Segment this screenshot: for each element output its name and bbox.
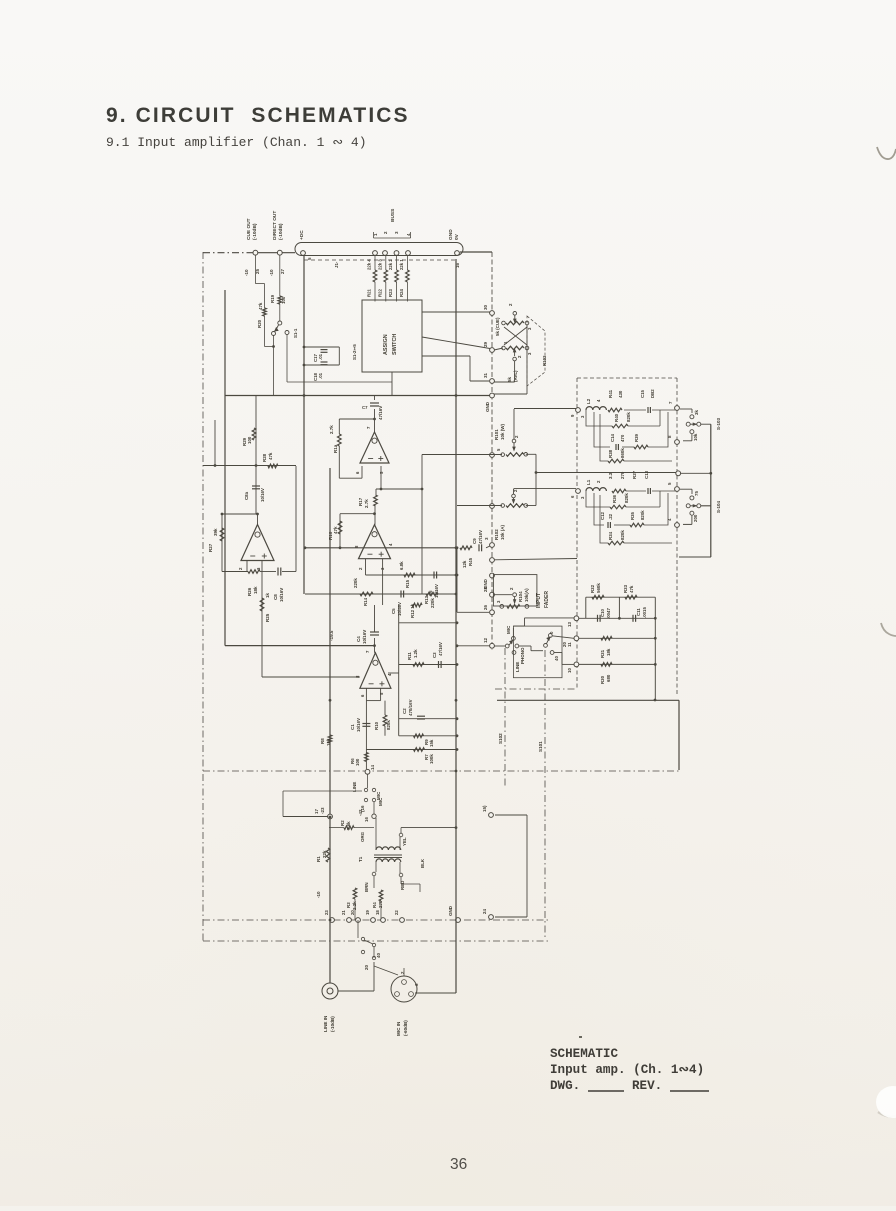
svg-text:GND: GND — [448, 229, 454, 240]
svg-text:R15: R15 — [405, 579, 410, 588]
svg-text:(AVL): (AVL) — [513, 370, 518, 382]
svg-text:C10: C10 — [600, 608, 605, 617]
svg-text:3k: 3k — [694, 410, 699, 415]
svg-text:10/16V: 10/16V — [260, 488, 265, 502]
svg-text:MIC: MIC — [378, 797, 383, 806]
svg-text:R45: R45 — [468, 557, 473, 566]
svg-text:-10: -10 — [244, 269, 249, 276]
svg-text:21: 21 — [341, 910, 346, 915]
svg-text:47k: 47k — [333, 526, 338, 534]
svg-text:20: 20 — [350, 910, 355, 915]
svg-text:R13: R13 — [424, 595, 429, 604]
svg-text:10k: 10k — [693, 433, 698, 441]
svg-text:270: 270 — [378, 900, 383, 908]
svg-text:DIRECT OUT: DIRECT OUT — [272, 211, 278, 240]
svg-text:R36: R36 — [612, 494, 617, 503]
svg-text:1k: 1k — [265, 592, 270, 598]
svg-text:26: 26 — [483, 604, 488, 610]
svg-text:GND: GND — [448, 905, 453, 916]
svg-text:.22: .22 — [608, 513, 613, 520]
svg-text:R11: R11 — [407, 652, 412, 660]
svg-text:-23: -23 — [320, 807, 325, 814]
svg-text:470: 470 — [620, 434, 625, 442]
svg-text:R1: R1 — [316, 856, 321, 862]
svg-text:S-104: S-104 — [716, 500, 721, 513]
svg-text:(-10dB): (-10dB) — [278, 223, 284, 240]
svg-text:R25: R25 — [265, 613, 270, 622]
svg-text:36: 36 — [450, 1156, 467, 1173]
svg-text:23: 23 — [324, 910, 329, 915]
svg-text:9.1 Input amplifier (Chan. 1: 9.1 Input amplifier (Chan. 1 ∾ 4) — [106, 135, 367, 150]
svg-text:R20: R20 — [257, 319, 262, 328]
svg-text:R4: R4 — [372, 902, 377, 908]
svg-text:.01: .01 — [318, 372, 323, 379]
svg-text:47k: 47k — [268, 452, 273, 460]
svg-text:R39: R39 — [634, 433, 639, 442]
svg-text:22: 22 — [394, 910, 399, 915]
svg-text:270: 270 — [620, 471, 625, 479]
svg-text:18: 18 — [375, 910, 380, 915]
svg-text:100: 100 — [355, 758, 360, 766]
svg-text:12k: 12k — [462, 560, 467, 568]
svg-text:R14: R14 — [363, 597, 368, 606]
svg-text:CUE OUT: CUE OUT — [246, 218, 252, 240]
svg-text:220k: 220k — [430, 598, 435, 608]
svg-text:13: 13 — [567, 622, 572, 627]
svg-text:S102: S102 — [498, 733, 503, 744]
svg-text:820k: 820k — [640, 510, 645, 520]
svg-text:820k: 820k — [620, 530, 625, 540]
svg-text:REV.: REV. — [632, 1079, 662, 1093]
svg-text:200: 200 — [693, 514, 698, 522]
svg-text:LINE: LINE — [515, 662, 520, 672]
svg-text:18k: 18k — [253, 586, 258, 594]
svg-text:R38: R38 — [608, 449, 613, 458]
svg-text:C14: C14 — [610, 433, 615, 442]
svg-text:L2: L2 — [586, 398, 591, 404]
svg-text:R37: R37 — [632, 470, 637, 479]
svg-text:860k: 860k — [620, 448, 625, 458]
svg-text:YEL: YEL — [402, 837, 407, 846]
svg-text:R40: R40 — [614, 413, 619, 422]
svg-text:1.2k: 1.2k — [413, 649, 418, 658]
svg-text:R17: R17 — [358, 497, 363, 506]
svg-text:5k (CUE): 5k (CUE) — [495, 317, 500, 336]
svg-text:820k: 820k — [626, 412, 631, 422]
svg-text:(16: (16 — [360, 805, 365, 812]
svg-text:47/16V: 47/16V — [478, 530, 483, 544]
svg-text:Input amp. (Ch. 1∾4): Input amp. (Ch. 1∾4) — [550, 1063, 704, 1077]
svg-text:24: 24 — [482, 908, 487, 914]
svg-text:17: 17 — [314, 808, 319, 814]
svg-text:47k: 47k — [258, 302, 263, 310]
svg-text:PHONO: PHONO — [520, 647, 525, 664]
svg-text:15k: 15k — [429, 739, 434, 747]
svg-text:3.3: 3.3 — [608, 472, 613, 479]
svg-text:R31: R31 — [600, 649, 605, 658]
svg-text:T1: T1 — [358, 856, 363, 862]
svg-text:C2: C2 — [402, 708, 407, 714]
svg-text:820k: 820k — [386, 720, 391, 730]
svg-text:11: 11 — [567, 642, 572, 647]
svg-text:C7: C7 — [362, 405, 368, 410]
svg-text:S-103: S-103 — [716, 417, 721, 430]
svg-text:10/16V: 10/16V — [356, 718, 361, 732]
svg-text:R104: R104 — [518, 591, 523, 602]
svg-text:220k: 220k — [353, 578, 358, 588]
svg-text:15): 15) — [482, 805, 487, 812]
svg-text:31: 31 — [483, 372, 488, 378]
svg-text:19: 19 — [365, 910, 370, 915]
svg-text:6.8k: 6.8k — [399, 561, 404, 570]
svg-text:R8: R8 — [320, 738, 325, 744]
svg-text:S1-1: S1-1 — [293, 328, 298, 338]
svg-text:10: 10 — [567, 668, 572, 673]
svg-text:22k: 22k — [322, 850, 327, 858]
svg-text:R28: R28 — [262, 453, 267, 462]
svg-text:BUSS: BUSS — [390, 208, 396, 222]
svg-text:C4: C4 — [356, 636, 361, 642]
svg-text:J1-: J1- — [334, 261, 339, 268]
svg-text:22k 3: 22k 3 — [377, 259, 382, 270]
svg-text:C13: C13 — [644, 470, 649, 479]
svg-text:S1-2∾5: S1-2∾5 — [352, 344, 357, 360]
svg-text:R19: R19 — [270, 294, 275, 303]
svg-text:0V: 0V — [454, 233, 460, 240]
svg-text:(-10dB): (-10dB) — [252, 223, 258, 240]
svg-text:R35: R35 — [630, 511, 635, 520]
svg-text:.0015: .0015 — [642, 607, 647, 618]
svg-text:2.2k: 2.2k — [352, 901, 357, 910]
svg-text:DWG.: DWG. — [550, 1079, 580, 1093]
svg-text:R33: R33 — [623, 584, 628, 593]
svg-text:R101: R101 — [494, 429, 499, 440]
svg-text:28: 28 — [483, 586, 488, 592]
svg-text:10k (A): 10k (A) — [500, 524, 505, 540]
svg-text:ASSIGN: ASSIGN — [383, 334, 389, 355]
svg-text:R26: R26 — [247, 587, 252, 596]
svg-text:2.7k: 2.7k — [329, 425, 334, 434]
svg-text:R2: R2 — [340, 820, 345, 826]
svg-text:2.7k: 2.7k — [364, 499, 369, 508]
svg-text:BLK: BLK — [420, 858, 425, 868]
svg-text:680: 680 — [606, 674, 611, 682]
svg-text:R32: R32 — [590, 584, 595, 593]
svg-text:MIC: MIC — [506, 625, 511, 634]
svg-text:C3: C3 — [432, 652, 437, 658]
svg-text:C15: C15 — [640, 389, 645, 398]
svg-text:5k: 5k — [507, 377, 512, 382]
svg-text:430: 430 — [618, 390, 623, 398]
svg-text:C5: C5 — [391, 608, 396, 614]
svg-text:MIC IN: MIC IN — [396, 1021, 401, 1036]
svg-text:R23: R23 — [388, 289, 393, 297]
svg-text:C9: C9 — [472, 538, 477, 544]
svg-text:R102: R102 — [494, 529, 499, 540]
svg-text:10/16V: 10/16V — [279, 588, 284, 602]
svg-text:R103: R103 — [542, 355, 547, 366]
svg-text:SCHEMATIC: SCHEMATIC — [550, 1047, 618, 1061]
svg-text:BRN: BRN — [364, 882, 369, 892]
svg-text:22k 4: 22k 4 — [367, 259, 372, 270]
svg-text:10k(A): 10k(A) — [524, 588, 529, 602]
svg-text:C11: C11 — [636, 608, 641, 616]
svg-text:47k: 47k — [629, 585, 634, 593]
svg-text:100: 100 — [247, 436, 252, 444]
svg-text:27: 27 — [280, 268, 285, 274]
svg-text:12: 12 — [483, 637, 488, 643]
svg-text:30: 30 — [483, 304, 488, 310]
svg-text:(-60dB): (-60dB) — [403, 1020, 408, 1036]
svg-text:R21: R21 — [367, 289, 372, 297]
svg-text:GND: GND — [485, 401, 490, 412]
svg-text:40: 40 — [554, 656, 559, 661]
svg-text:SWITCH: SWITCH — [392, 334, 398, 355]
svg-text:9. CIRCUIT SCHEMATICS: 9. CIRCUIT SCHEMATICS — [106, 104, 410, 127]
svg-text:R24: R24 — [399, 289, 404, 297]
svg-text:R3: R3 — [346, 902, 351, 908]
svg-text:C12: C12 — [600, 511, 605, 520]
svg-text:R22: R22 — [377, 289, 382, 297]
svg-text:C8: C8 — [273, 594, 278, 600]
svg-text:40: 40 — [376, 952, 381, 958]
svg-text:.01: .01 — [318, 353, 323, 360]
svg-text:100: 100 — [281, 296, 286, 304]
svg-text:.0047: .0047 — [606, 608, 611, 619]
svg-text:L1: L1 — [586, 479, 591, 485]
svg-text:29: 29 — [483, 341, 488, 347]
svg-text:ORG: ORG — [360, 831, 365, 842]
svg-text:+DC: +DC — [299, 230, 305, 240]
svg-text:LINE: LINE — [352, 782, 357, 792]
svg-text:100k: 100k — [429, 754, 434, 764]
svg-text:820k: 820k — [624, 493, 629, 503]
svg-text:47/16V: 47/16V — [438, 642, 443, 656]
svg-text:5.6k: 5.6k — [346, 821, 351, 830]
svg-text:S101: S101 — [538, 741, 543, 752]
svg-text:10/46V: 10/46V — [397, 602, 402, 616]
svg-text:C1: C1 — [350, 724, 355, 730]
svg-text:DB2: DB2 — [650, 389, 655, 398]
svg-text:20: 20 — [364, 964, 369, 970]
svg-text:(-10dB): (-10dB) — [330, 1016, 335, 1032]
svg-text:10k (W): 10k (W) — [500, 423, 505, 440]
svg-text:10/16V: 10/16V — [362, 630, 367, 644]
svg-text:R12 1k: R12 1k — [410, 603, 415, 618]
svg-text:39k: 39k — [213, 528, 218, 536]
svg-text:75: 75 — [694, 491, 699, 496]
svg-text:R1a: R1a — [333, 444, 338, 453]
svg-text:47/16V: 47/16V — [378, 406, 383, 420]
svg-text:16: 16 — [364, 817, 369, 822]
svg-text:-10: -10 — [316, 891, 321, 898]
svg-text:18k: 18k — [606, 648, 611, 656]
svg-text:R30: R30 — [600, 675, 605, 684]
svg-text:R41: R41 — [608, 389, 613, 398]
svg-text:R10: R10 — [374, 721, 379, 730]
svg-text:C8a: C8a — [244, 491, 249, 500]
svg-text:LINE IN: LINE IN — [323, 1015, 328, 1032]
svg-text:R34: R34 — [608, 531, 613, 540]
svg-text:-10: -10 — [269, 269, 274, 276]
svg-text:470/16V: 470/16V — [408, 699, 413, 716]
svg-text:FADER: FADER — [544, 591, 550, 608]
svg-text:R27: R27 — [208, 543, 213, 552]
svg-text:15k: 15k — [326, 738, 331, 746]
svg-text:14: 14 — [370, 765, 375, 770]
svg-text:22k 1: 22k 1 — [399, 259, 404, 270]
svg-text:560k: 560k — [596, 583, 601, 593]
svg-text:INPUT: INPUT — [536, 593, 542, 608]
svg-text:22k 2: 22k 2 — [388, 259, 393, 270]
